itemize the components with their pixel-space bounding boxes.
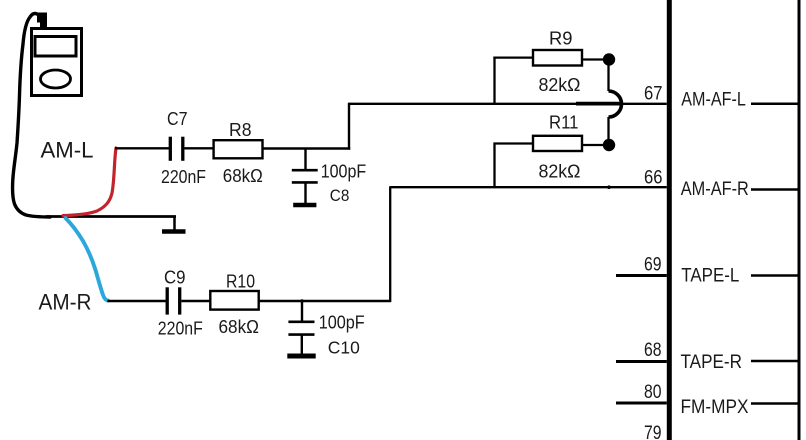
svg-text:220nF: 220nF [158, 317, 203, 338]
svg-text:TAPE-R: TAPE-R [681, 352, 743, 373]
music player body [32, 29, 82, 96]
capacitor C8 [292, 149, 318, 204]
capacitor C10 [288, 301, 314, 354]
wire R8 to corner [263, 147, 351, 149]
svg-text:AM-AF-R: AM-AF-R [681, 179, 749, 200]
wire R11 to dot [582, 144, 606, 146]
svg-text:100pF: 100pF [321, 160, 367, 181]
wire R9 to dot [582, 58, 606, 60]
wire TAPE-L to bus [751, 274, 799, 277]
wire FM-MPX to bus [751, 402, 799, 405]
svg-text:79: 79 [644, 423, 662, 440]
svg-text:68: 68 [644, 340, 662, 361]
svg-text:220nF: 220nF [161, 166, 206, 187]
resistor R8 [214, 140, 263, 158]
wire AM-L input [115, 147, 169, 149]
svg-text:AM-L: AM-L [41, 138, 94, 163]
ground (C10) [287, 354, 315, 359]
wire blue AM-R lead [66, 218, 109, 301]
pin 68 stub [616, 360, 667, 363]
resistor R9 [533, 50, 582, 66]
wire AM-R input [107, 300, 166, 302]
wire TAPE-R to bus [751, 360, 799, 363]
capacitor C9 [167, 287, 180, 314]
wire hop over pin67 [609, 91, 622, 117]
wire pin 66 line [390, 186, 667, 188]
wire AM-AF-R to bus [751, 188, 799, 191]
capacitor C7 [170, 137, 183, 161]
wire R10 to riser [259, 300, 391, 302]
svg-text:R11: R11 [549, 111, 579, 132]
wire shield to ground [46, 215, 176, 218]
svg-text:AM-AF-L: AM-AF-L [681, 90, 746, 111]
svg-text:AM-R: AM-R [39, 289, 92, 314]
pin 80 stub [616, 402, 667, 405]
IC boundary line [667, 0, 672, 440]
svg-text:TAPE-L: TAPE-L [681, 266, 739, 287]
wire R11 left riser [493, 144, 495, 188]
resistor R11 [533, 136, 582, 151]
junction tick C10 [300, 299, 304, 303]
svg-text:C8: C8 [330, 187, 350, 205]
pin 69 stub [616, 274, 667, 277]
ground (C8) [293, 203, 316, 208]
svg-text:C10: C10 [328, 338, 360, 358]
svg-text:68kΩ: 68kΩ [223, 165, 263, 186]
wire pin 67 line [349, 103, 667, 105]
junction tick on pin 66 line [607, 185, 611, 189]
wire R11 left [493, 142, 533, 144]
svg-text:C7: C7 [167, 108, 188, 129]
wire vertical hop to R11 dot [607, 117, 609, 141]
wire riser pin66 to AM-R channel [389, 186, 391, 302]
svg-text:69: 69 [644, 255, 662, 276]
headphone plug [37, 13, 47, 29]
junction dot R9 right [603, 53, 615, 65]
svg-text:R8: R8 [229, 119, 252, 140]
svg-text:R10: R10 [226, 270, 255, 291]
svg-text:R9: R9 [549, 28, 573, 49]
resistor R10 [210, 291, 258, 310]
svg-text:C9: C9 [164, 267, 186, 288]
svg-text:82kΩ: 82kΩ [539, 74, 581, 95]
svg-text:100pF: 100pF [319, 311, 365, 332]
music player click wheel [41, 70, 71, 88]
svg-text:80: 80 [644, 382, 662, 403]
headphone cable [13, 13, 50, 217]
wire vertical dot to hop [607, 63, 609, 91]
svg-text:FM-MPX: FM-MPX [681, 397, 749, 418]
wire R9 loop left riser [493, 57, 495, 104]
svg-text:67: 67 [644, 84, 663, 105]
ground (shield) [162, 217, 186, 232]
svg-text:66: 66 [644, 167, 663, 188]
right bus line [798, 0, 801, 440]
wire R9 top left [493, 56, 533, 58]
wire red AM-L lead [63, 148, 116, 216]
wire pin 67 thick segment [576, 102, 621, 106]
junction dot R11 right [603, 139, 615, 151]
wire AM-AF-L to bus [751, 103, 799, 106]
wire C7 to R8 [184, 147, 214, 149]
svg-text:82kΩ: 82kΩ [539, 160, 581, 181]
wire C9 to R10 [181, 300, 211, 302]
wire riser to pin67 line [348, 103, 350, 150]
svg-text:68kΩ: 68kΩ [219, 316, 260, 337]
music player screen [35, 37, 76, 57]
